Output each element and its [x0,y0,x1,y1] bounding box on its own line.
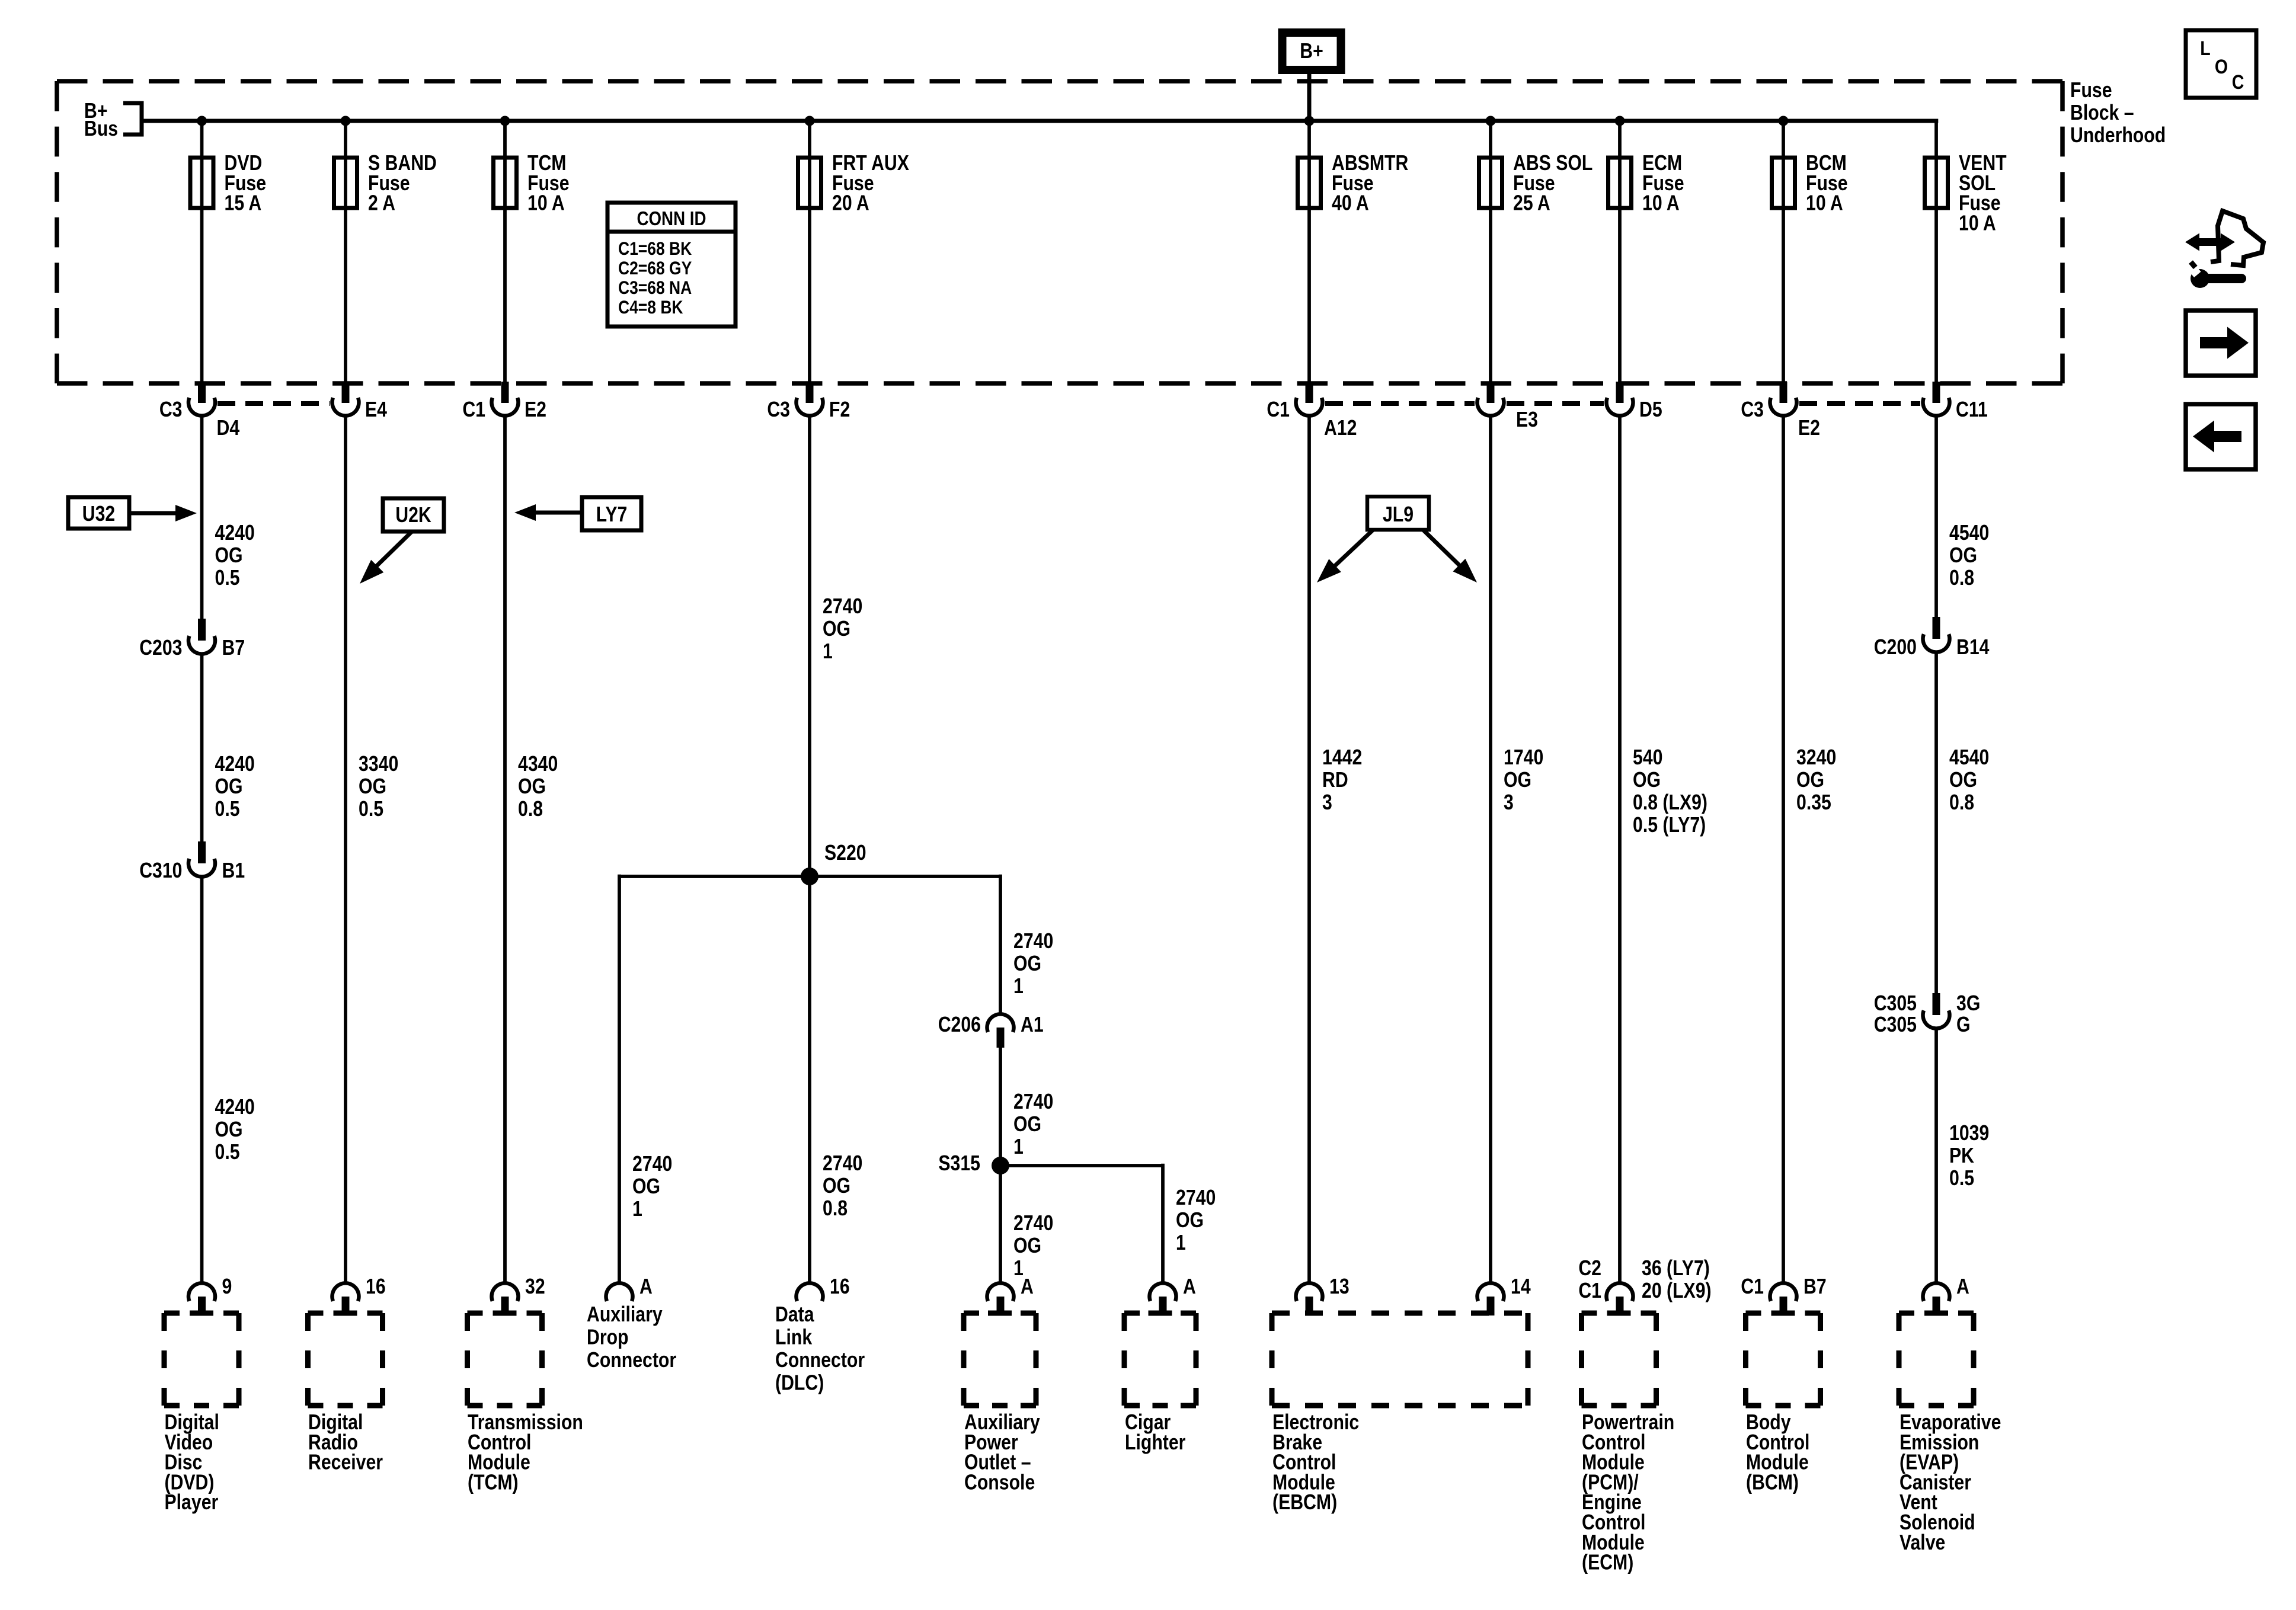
callout JL9 [1317,497,1477,582]
fuse FRT AUX 20 A [798,152,909,216]
svg-text:C310: C310 [139,859,182,883]
connector terminal A EVAP [1923,1275,1969,1315]
connector terminal 16 radio [332,1275,386,1315]
svg-text:(EBCM): (EBCM) [1272,1491,1337,1515]
svg-text:Lighter: Lighter [1125,1430,1186,1454]
svg-text:3G: 3G [1956,992,1980,1016]
svg-text:OG: OG [215,775,243,799]
connector terminal 16 DLC [797,1275,850,1301]
svg-text:4240: 4240 [215,521,255,545]
svg-text:1442: 1442 [1322,746,1362,770]
svg-text:OG: OG [518,775,546,799]
wire S315 branch right [1000,1164,1163,1167]
icon powertrain wrench [2185,211,2263,288]
wire DVD circuit 4240 OG 0.5 (upper) [200,415,204,619]
svg-text:OG: OG [632,1175,660,1199]
fuse TCM 10 A [494,152,570,216]
connector fuse block E3 [1478,382,1538,432]
svg-text:B7: B7 [222,636,245,660]
svg-text:0.8 (LX9): 0.8 (LX9) [1633,791,1707,815]
svg-text:OG: OG [215,544,243,568]
svg-text:36 (LY7): 36 (LY7) [1642,1257,1710,1281]
connector fuse block E2 [1741,382,1820,440]
svg-text:C1: C1 [1267,398,1290,422]
svg-text:JL9: JL9 [1383,503,1414,527]
svg-text:20 (LX9): 20 (LX9) [1642,1279,1712,1303]
svg-text:Block –: Block – [2070,101,2134,125]
svg-text:3340: 3340 [359,753,398,776]
CONN ID table [607,203,736,327]
connector fuse block D4 [159,382,240,440]
label wire 4540 OG 0.8 [1949,746,1989,815]
callout LY7 [514,497,641,530]
wire C206 to S315 2740 OG 1 [999,1048,1002,1166]
svg-text:2740: 2740 [1013,1090,1053,1114]
label wire 2740 OG 1 [1013,1090,1053,1159]
svg-text:C1: C1 [1578,1279,1601,1303]
svg-text:B14: B14 [1956,636,1990,660]
component Digital Video Disc (DVD) Player [164,1313,239,1515]
svg-text:1: 1 [823,640,833,664]
wire S220 branch right [810,875,1000,878]
label wire 4240 OG 0.5 [215,753,255,821]
connector C310 B1 [139,841,245,883]
svg-text:A1: A1 [1021,1013,1044,1037]
label wire 2740 OG 1 [823,595,862,664]
svg-text:0.5: 0.5 [215,566,240,590]
fuse S BAND 2 A [334,152,437,216]
fuse block border (Fuse Block - Underhood) [57,81,2062,383]
component Auxiliary Power Outlet - Console [964,1313,1040,1494]
svg-text:C200: C200 [1874,636,1917,660]
svg-text:OG: OG [1949,544,1977,568]
svg-text:0.5: 0.5 [359,798,383,821]
svg-text:Link: Link [775,1326,813,1349]
wire ABSMTR circuit 1442 RD 3 [1307,415,1311,1284]
component EVAP Canister Vent Solenoid Valve [1899,1313,2001,1554]
node B+ Bus [84,100,142,141]
svg-text:OG: OG [1796,769,1824,792]
component Powertrain Control Module (PCM)/Engine Control Module (ECM) [1582,1313,1675,1574]
svg-text:B1: B1 [222,859,245,883]
svg-text:0.5 (LY7): 0.5 (LY7) [1633,814,1706,837]
svg-text:A: A [1183,1275,1196,1299]
svg-text:540: 540 [1633,746,1662,770]
svg-text:LY7: LY7 [596,503,628,527]
connector body dash C3/E4 [218,401,330,406]
svg-text:Console: Console [964,1471,1035,1494]
svg-text:OG: OG [1013,952,1041,976]
svg-text:B+: B+ [1300,40,1323,63]
svg-text:Underhood: Underhood [2070,124,2166,148]
wire bus through ABS SOL fuse to connector [1489,121,1492,384]
svg-text:OG: OG [823,617,850,641]
svg-text:O: O [2215,56,2228,78]
wire ABS SOL circuit 1740 OG 3 [1489,415,1492,1284]
connector terminal A aux drop [606,1275,652,1301]
connector body dash A12/E3 [1325,401,1475,406]
svg-text:2740: 2740 [1013,1212,1053,1235]
junction bus/BCM [1779,116,1789,126]
svg-text:2 A: 2 A [368,191,395,215]
label wire 4340 OG 0.8 [518,753,558,821]
wire 1039 PK 0.5 [1934,1028,1938,1284]
component Digital Radio Receiver [308,1313,383,1474]
connector fuse block C11 [1923,382,1988,422]
label wire 2740 OG 1 [1013,930,1053,998]
svg-text:D4: D4 [217,417,240,440]
svg-text:Auxiliary: Auxiliary [587,1303,663,1327]
svg-text:0.5: 0.5 [1949,1167,1974,1190]
wire bus through ECM fuse to connector [1618,121,1622,384]
svg-text:1: 1 [1013,1135,1024,1159]
connector terminal 14 EBCM [1478,1275,1531,1315]
junction bus/TCM [500,116,510,126]
svg-text:1: 1 [632,1198,642,1221]
svg-text:0.5: 0.5 [215,798,240,821]
svg-text:L: L [2200,37,2210,60]
wire aux drop 2740 OG 1 [618,875,621,1284]
wire S BAND circuit 3340 OG 0.5 [344,415,347,1284]
wire B+ feed [1307,74,1312,121]
svg-text:3: 3 [1504,791,1514,815]
wire to C206 2740 OG 1 [999,875,1002,1014]
svg-text:16: 16 [366,1275,386,1299]
svg-text:4340: 4340 [518,753,558,776]
component Transmission Control Module (TCM) [468,1313,583,1494]
connector terminal A aux power outlet [987,1275,1033,1315]
svg-text:C305: C305 [1874,992,1917,1016]
svg-text:0.35: 0.35 [1796,791,1831,815]
svg-text:10 A: 10 A [1959,212,1996,235]
connector C203 B7 [139,619,245,660]
connector fuse block A12 [1267,382,1357,440]
junction bus/ABS SOL [1486,116,1496,126]
svg-text:B7: B7 [1803,1275,1827,1299]
wire 4240 OG 0.5 (middle) [200,653,204,842]
label wire 4240 OG 0.5 [215,521,255,590]
callout U2K [360,498,444,584]
svg-text:OG: OG [215,1118,243,1142]
svg-text:15 A: 15 A [225,191,262,215]
label wire 4540 OG 0.8 [1949,521,1989,590]
connector terminal 32 TCM [492,1275,545,1315]
svg-text:C3: C3 [159,398,183,422]
label wire 3340 OG 0.5 [359,753,398,821]
svg-text:C203: C203 [139,636,182,660]
junction bus/DVD [197,116,207,126]
component Auxiliary Drop Connector [587,1303,676,1372]
icon LOC box [2186,30,2256,98]
wire bus through S BAND fuse to connector [344,121,347,384]
svg-text:C11: C11 [1956,398,1988,422]
svg-text:Bus: Bus [84,117,118,141]
svg-text:E4: E4 [365,398,387,422]
svg-text:9: 9 [222,1275,232,1299]
svg-text:2740: 2740 [823,1152,862,1176]
svg-text:A12: A12 [1324,417,1357,440]
svg-text:C4=8 BK: C4=8 BK [618,297,683,318]
svg-text:C1=68 BK: C1=68 BK [618,239,692,260]
connector terminal 13 EBCM [1296,1275,1350,1315]
svg-text:C3: C3 [1741,398,1764,422]
label wire 2740 OG 1 [1013,1212,1053,1281]
label wire 4240 OG 0.5 [215,1096,255,1164]
connector body dash E3/D5 [1507,401,1604,406]
svg-text:U32: U32 [82,502,115,526]
wire 4240 OG 0.5 (lower) [200,876,204,1284]
wire S315 to aux power outlet 2740 OG 1 [999,1166,1002,1284]
connector fuse block F2 [767,382,850,422]
svg-text:E2: E2 [525,398,546,422]
svg-text:14: 14 [1511,1275,1531,1299]
connector terminal A cigar lighter [1150,1275,1196,1315]
label wire 1442 RD 3 [1322,746,1362,815]
svg-text:0.8: 0.8 [518,798,543,821]
svg-text:0.5: 0.5 [215,1141,240,1164]
component Cigar Lighter [1124,1313,1196,1454]
svg-text:G: G [1956,1013,1971,1037]
svg-text:OG: OG [1504,769,1531,792]
splice S220 [801,841,866,885]
svg-text:CONN ID: CONN ID [637,208,706,230]
svg-text:RD: RD [1322,769,1348,792]
svg-text:Valve: Valve [1900,1531,1945,1554]
svg-text:20 A: 20 A [832,191,869,215]
component Data Link Connector (DLC) [775,1303,865,1395]
connector C200 B14 [1874,617,1990,660]
fuse ECM 10 A [1609,152,1684,216]
junction bus/ECM [1615,116,1625,126]
svg-text:C305: C305 [1874,1013,1917,1037]
svg-text:2740: 2740 [632,1153,672,1176]
svg-text:C206: C206 [938,1013,981,1037]
fuse DVD 15 A [190,152,266,216]
label wire 2740 OG 0.8 [823,1152,862,1221]
svg-text:25 A: 25 A [1513,191,1550,215]
svg-text:16: 16 [830,1275,850,1299]
wire BCM circuit 3240 OG 0.35 [1782,415,1785,1284]
svg-text:10 A: 10 A [527,191,565,215]
svg-text:A: A [1956,1275,1969,1299]
wire bus through ABSMTR fuse to connector [1307,121,1311,384]
fuse ABS SOL 25 A [1479,152,1593,216]
svg-text:PK: PK [1949,1144,1974,1168]
label wire 1740 OG 3 [1504,746,1543,815]
icon arrow right box [2186,311,2256,376]
callout U32 [68,497,197,529]
component Body Control Module (BCM) [1746,1313,1821,1494]
connector C305 3G/G [1874,992,1981,1037]
wire bus through BCM fuse to connector [1782,121,1785,384]
wire cigar lighter 2740 OG 1 [1161,1164,1165,1284]
svg-text:Data: Data [775,1303,814,1327]
svg-text:C: C [2232,71,2244,94]
wire VENT SOL circuit 4540 OG 0.8 (upper) [1934,415,1938,617]
svg-text:D5: D5 [1639,398,1662,422]
svg-text:A: A [639,1275,653,1299]
label wire 2740 OG 1 [1176,1186,1216,1255]
connector fuse block E4 [332,382,388,422]
svg-text:40 A: 40 A [1332,191,1369,215]
wire FRT AUX to DLC 2740 OG 0.8 [808,876,811,1284]
wire B+ bus [142,119,1938,123]
connector terminal 9 DVD player [188,1275,232,1315]
svg-text:(DLC): (DLC) [775,1371,824,1395]
wire bus through DVD fuse to connector [200,121,204,384]
svg-text:E3: E3 [1516,408,1538,432]
wire TCM circuit 4340 OG 0.8 [503,415,507,1284]
svg-text:C1: C1 [1741,1275,1764,1299]
svg-text:OG: OG [1176,1209,1204,1233]
wire bus through FRT AUX fuse to connector [808,121,811,384]
label wire 540 OG 0.8 (LX9) 0.5 (LY7) [1633,746,1707,837]
svg-text:32: 32 [525,1275,545,1299]
svg-text:U2K: U2K [395,504,431,527]
svg-text:4540: 4540 [1949,521,1989,545]
svg-text:(TCM): (TCM) [468,1471,519,1494]
connector terminal C1 B7 BCM [1741,1275,1826,1315]
svg-text:Fuse: Fuse [2070,79,2112,103]
svg-text:(ECM): (ECM) [1582,1551,1633,1574]
label wire 1039 PK 0.5 [1949,1122,1989,1190]
svg-text:0.8: 0.8 [1949,791,1974,815]
svg-text:E2: E2 [1798,417,1820,440]
svg-text:1: 1 [1176,1231,1186,1255]
connector fuse block E2 [462,382,546,422]
svg-text:0.8: 0.8 [1949,566,1974,590]
fuse ABSMTR 40 A [1298,152,1409,216]
wire 4540 OG 0.8 (middle) [1934,651,1938,993]
svg-text:(BCM): (BCM) [1746,1471,1799,1494]
svg-text:0.8: 0.8 [823,1197,848,1221]
svg-text:4240: 4240 [215,753,255,776]
svg-text:OG: OG [1013,1113,1041,1137]
svg-text:4540: 4540 [1949,746,1989,770]
wire FRT AUX circuit 2740 OG 1 [808,415,811,876]
svg-text:C3=68 NA: C3=68 NA [618,278,692,299]
fuse VENT SOL 10 A [1925,152,2007,235]
svg-text:3: 3 [1322,791,1332,815]
svg-text:OG: OG [359,775,386,799]
connector C206 A1 [938,1013,1044,1048]
svg-text:OG: OG [823,1174,850,1198]
svg-text:C2: C2 [1578,1257,1601,1281]
splice S315 [938,1152,1009,1176]
connector body dash E2/C11 [1799,401,1920,406]
wire bus through TCM fuse to connector [503,121,507,384]
junction bus/FRT AUX [805,116,815,126]
svg-text:C2=68 GY: C2=68 GY [618,258,692,279]
svg-text:OG: OG [1633,769,1661,792]
svg-text:Drop: Drop [587,1326,629,1349]
svg-text:13: 13 [1329,1275,1350,1299]
label Fuse Block - Underhood [2070,79,2166,148]
wire ECM circuit 540 OG [1618,415,1622,1284]
connector terminal C2/C1 PCM [1578,1257,1711,1315]
svg-text:Connector: Connector [587,1349,676,1372]
svg-text:Connector: Connector [775,1349,865,1372]
connector fuse block D5 [1607,382,1662,422]
svg-text:C3: C3 [767,398,790,422]
power B+ [1283,33,1341,70]
svg-text:10 A: 10 A [1642,191,1680,215]
svg-text:C1: C1 [462,398,485,422]
svg-text:2740: 2740 [1176,1186,1216,1210]
svg-text:3240: 3240 [1796,746,1836,770]
svg-text:2740: 2740 [1013,930,1053,953]
svg-text:Receiver: Receiver [308,1451,383,1474]
svg-text:4240: 4240 [215,1096,255,1119]
svg-text:1: 1 [1013,975,1024,998]
wire bus through VENT SOL fuse to connector [1934,121,1938,384]
svg-text:OG: OG [1949,769,1977,792]
icon arrow left box [2186,404,2256,469]
svg-text:Player: Player [165,1491,219,1515]
svg-text:S220: S220 [824,841,866,865]
label wire 3240 OG 0.35 [1796,746,1836,815]
junction bus/S BAND [341,116,351,126]
svg-text:2740: 2740 [823,595,862,619]
label wire 2740 OG 1 [632,1153,672,1221]
junction bus/ABSMTR [1304,116,1315,126]
wire S220 branch left [619,875,810,878]
svg-text:OG: OG [1013,1234,1041,1258]
svg-text:10 A: 10 A [1806,191,1843,215]
component Electronic Brake Control Module (EBCM) [1272,1313,1528,1515]
svg-text:1039: 1039 [1949,1122,1989,1145]
svg-text:1740: 1740 [1504,746,1543,770]
svg-text:F2: F2 [829,398,850,422]
svg-text:S315: S315 [938,1152,980,1176]
svg-text:A: A [1021,1275,1034,1299]
fuse BCM 10 A [1772,152,1848,216]
